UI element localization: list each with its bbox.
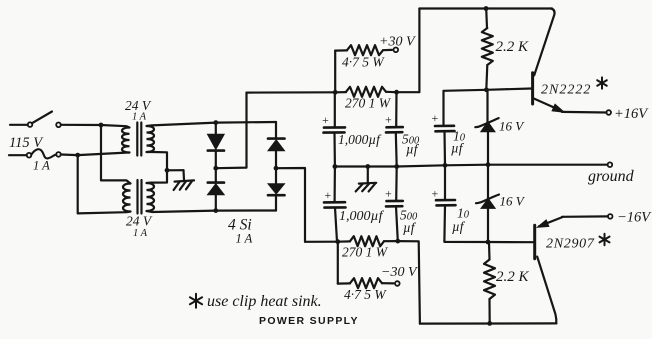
- resistor R4 4.7 5W (neg): [337, 242, 339, 284]
- transformer T1 secondary coil: [147, 126, 155, 152]
- svg-text:16 V: 16 V: [500, 194, 526, 209]
- capacitor C3 10uF (pos): [442, 91, 444, 126]
- svg-text:2.2 K: 2.2 K: [496, 39, 530, 55]
- transistor Q1 base bar: [531, 73, 534, 104]
- node: pos rail / C2: [394, 90, 399, 95]
- svg-text:16 V: 16 V: [499, 119, 525, 134]
- node: +rect: [213, 166, 218, 171]
- transformer T1 core: [136, 123, 138, 156]
- wire: [9, 154, 27, 156]
- node base+/zener/R3: [484, 87, 489, 92]
- wire primary parallel drop: [101, 125, 131, 184]
- diode D1: [208, 134, 225, 149]
- diode D2: [208, 181, 224, 184]
- wire: secondaries series link: [147, 152, 168, 183]
- capacitor C1 1000uF (pos): [334, 92, 336, 127]
- zener Z2 16V (neg): [487, 165, 489, 200]
- fuse F1 terminal: [56, 152, 61, 157]
- asterisk (note): [195, 294, 197, 308]
- terminal -30V: [395, 281, 400, 286]
- ground symbol (rail): [367, 167, 369, 184]
- capacitor C2 500uF (pos): [395, 92, 397, 127]
- node AC2/D2: [213, 208, 218, 213]
- svg-text:4·7 5 W: 4·7 5 W: [344, 287, 387, 302]
- diode D3: [268, 137, 285, 140]
- wire: [562, 111, 606, 114]
- diode D4: [275, 168, 277, 184]
- diode D3 lead: [275, 122, 277, 139]
- wire: top rail: [419, 7, 552, 9]
- wire: -rect to rail riser: [276, 168, 305, 242]
- svg-text:115 V: 115 V: [9, 135, 44, 151]
- transistor Q1 emitter: [533, 98, 560, 110]
- transistor Q2 collector: [537, 257, 556, 324]
- node: top rail / R3: [484, 6, 489, 11]
- asterisk (Q2): [604, 234, 606, 246]
- svg-text:+30 V: +30 V: [379, 35, 416, 50]
- transistor Q2 base bar: [533, 225, 536, 259]
- wire: [61, 125, 130, 128]
- wire: [61, 153, 130, 156]
- svg-text:1,000µf: 1,000µf: [338, 132, 382, 147]
- svg-text:−30 V: −30 V: [381, 265, 418, 280]
- wire: pos base line: [444, 89, 532, 91]
- wire AC2: [147, 211, 277, 213]
- node: neg rail / C5: [395, 239, 400, 244]
- switch S1 terminal: [56, 123, 61, 128]
- node gnd/C1: [333, 164, 338, 169]
- transistor Q1 collector: [534, 9, 554, 76]
- capacitor C4 1000uF (neg): [334, 167, 336, 203]
- node gnd/symbol: [365, 164, 370, 169]
- fuse F1 1A body: [31, 149, 56, 158]
- fuse F1 terminal: [27, 153, 32, 158]
- svg-text:POWER SUPPLY: POWER SUPPLY: [259, 315, 359, 327]
- svg-text:2.2 K: 2.2 K: [496, 269, 530, 285]
- node: neg rail / C4 / R4: [335, 239, 340, 244]
- svg-text:24 V: 24 V: [126, 214, 153, 229]
- asterisk (Q1): [601, 77, 603, 88]
- svg-text:+: +: [385, 113, 392, 127]
- wire: bottom rail: [420, 322, 556, 324]
- node: center tap: [165, 168, 170, 173]
- diode D1 lead: [215, 123, 217, 135]
- transistor Q2 emitter: [539, 217, 563, 226]
- transformer T2 secondary coil: [147, 183, 155, 211]
- transformer T2 core: [136, 180, 138, 214]
- node AC1/D1: [213, 120, 218, 125]
- wire fuse-line drop: [78, 155, 131, 213]
- terminal -16V: [608, 214, 613, 219]
- resistor R3 2.2K (pos): [485, 9, 488, 29]
- svg-text:1 A: 1 A: [33, 159, 50, 173]
- svg-text:+: +: [432, 111, 439, 125]
- transformer T2 primary coil: [123, 184, 131, 212]
- wire AC1: [147, 122, 277, 126]
- svg-text:+16V: +16V: [614, 106, 649, 122]
- svg-text:1 A: 1 A: [236, 232, 253, 246]
- capacitor C5 500uF (neg): [395, 167, 398, 201]
- switch S1 lever: [32, 112, 52, 124]
- wire: [10, 124, 28, 126]
- svg-text:1 A: 1 A: [132, 112, 147, 123]
- svg-text:270 1 W: 270 1 W: [345, 96, 392, 111]
- resistor R6 2.2K (neg): [488, 242, 491, 260]
- node: fuse line junction: [75, 153, 80, 158]
- svg-text:ground: ground: [588, 168, 635, 185]
- node gnd/zeners: [486, 162, 491, 167]
- svg-text:use clip heat sink.: use clip heat sink.: [207, 293, 322, 310]
- wire: +rect to rail riser: [216, 93, 247, 169]
- wire: [215, 195, 217, 211]
- switch S1 terminal: [28, 122, 33, 127]
- node: -rect: [274, 166, 279, 171]
- terminal +16V: [606, 110, 611, 115]
- zener Z1 16V (pos): [486, 90, 488, 123]
- node gnd/C3: [443, 163, 448, 168]
- wire: [215, 151, 217, 169]
- svg-text:270 1 W: 270 1 W: [342, 245, 389, 260]
- ground symbol (center tap): [182, 170, 185, 180]
- svg-text:2N2907: 2N2907: [546, 237, 595, 252]
- wire: ground rail: [335, 165, 608, 167]
- capacitor C6 10uF (neg): [444, 165, 446, 200]
- svg-text:2N2222: 2N2222: [541, 83, 591, 98]
- resistor R5 270 1W (neg), in rail: [305, 240, 350, 243]
- wire: neg base line: [444, 241, 533, 243]
- node gnd/C2: [394, 164, 399, 169]
- resistor R1 4.7 5W (pos): [334, 51, 336, 93]
- resistor R2 270 1W (pos), in rail: [247, 91, 336, 93]
- svg-text:1,000µf: 1,000µf: [339, 209, 385, 224]
- svg-text:+: +: [322, 113, 329, 127]
- node: bottom rail / R6: [487, 321, 492, 326]
- svg-text:+: +: [432, 187, 439, 201]
- node: switch line junction: [99, 123, 104, 128]
- terminal +30V: [394, 48, 399, 53]
- svg-text:+: +: [385, 187, 392, 201]
- terminal ground: [608, 162, 613, 167]
- wire: [562, 215, 608, 218]
- node base-/zener/R6: [486, 240, 491, 245]
- svg-text:−16V: −16V: [617, 210, 652, 226]
- transformer T1 primary coil: [122, 128, 130, 153]
- svg-text:4·7 5 W: 4·7 5 W: [342, 55, 385, 70]
- wire: center tap to ground: [167, 169, 184, 171]
- node: pos rail / C1 / R1: [333, 90, 338, 95]
- wire: [275, 195, 277, 210]
- svg-text:1 A: 1 A: [133, 228, 148, 239]
- svg-text:+: +: [325, 188, 332, 202]
